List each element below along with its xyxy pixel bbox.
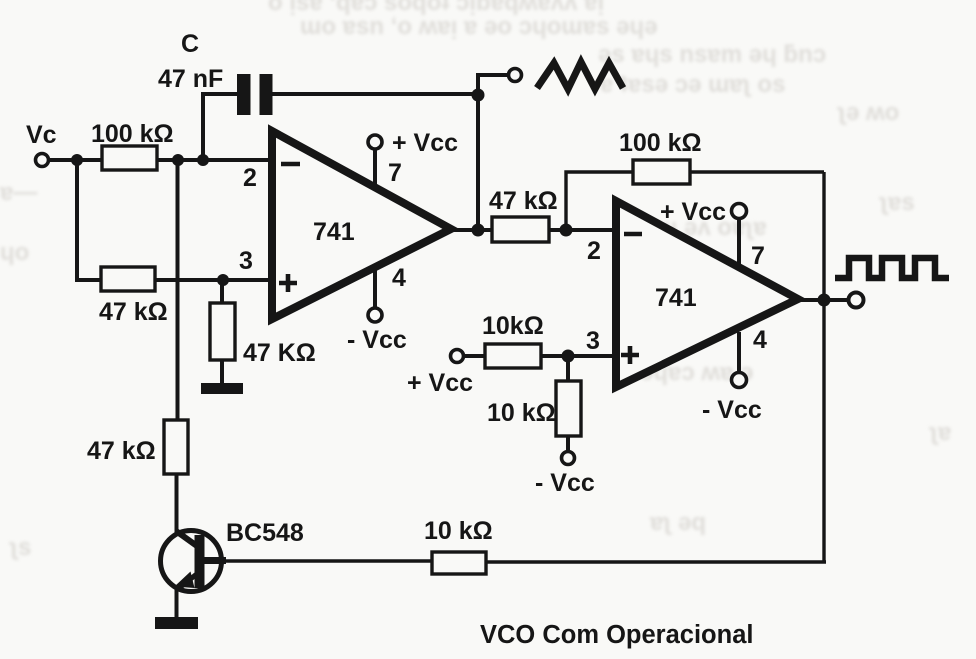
- svg-text:ǝs ɐɥs nsɐm ǝɥ ƃnɔ: ǝs ɐɥs nsɐm ǝɥ ƃnɔ: [598, 41, 826, 68]
- label 47 KOhm R3: [243, 339, 316, 367]
- wire right vertical feedback: [822, 172, 825, 562]
- resistor R3 47K vertical: [210, 303, 235, 360]
- svg-text:47 kΩ: 47 kΩ: [99, 298, 168, 326]
- svg-text:+ Vcc: + Vcc: [660, 198, 726, 226]
- label BC548: [226, 519, 304, 547]
- svg-text:ɐ ʇɐsǝ ɔǝ ɯɐʅ os: ɐ ʇɐsǝ ɔǝ ɯɐʅ os: [599, 71, 785, 98]
- wire R2 to op-amp U1 non-inverting input: [155, 278, 272, 282]
- wire capacitor branch up: [201, 92, 205, 160]
- resistor R5 47k horizontal middle: [492, 217, 549, 242]
- resistor R8 10k vertical: [556, 381, 581, 436]
- label 47 kOhm R4: [87, 437, 156, 465]
- triangle output terminal: [509, 69, 522, 82]
- wire R8 to -Vcc terminal: [566, 436, 570, 451]
- svg-text:- Vcc: - Vcc: [702, 396, 762, 424]
- wire R4 to transistor collector: [175, 474, 179, 533]
- wire R3 to ground: [220, 360, 224, 385]
- wire U1 output: [452, 228, 492, 232]
- resistor R4 47k vertical long: [164, 420, 188, 474]
- wire feedback vertical: [476, 95, 480, 230]
- wire R9 to right vertical: [486, 560, 826, 563]
- label 100 kOhm R6: [619, 129, 702, 157]
- transistor Q1 BC548: [161, 531, 227, 592]
- label 47 nF: [158, 65, 223, 93]
- wire capacitor right plate to feedback node: [272, 92, 478, 96]
- +Vcc terminal U2: [732, 204, 747, 219]
- label +Vcc U2: [660, 198, 726, 226]
- node U2 output: [818, 294, 831, 307]
- wire feedback up from pin2 node: [566, 172, 633, 230]
- svg-text:- Vcc: - Vcc: [347, 326, 407, 354]
- wire down-left branch: [77, 160, 101, 280]
- svg-text:ɥo: ɥo: [0, 239, 29, 266]
- svg-text:ɐʅ ǝq: ɐʅ ǝq: [649, 509, 706, 536]
- svg-text:C: C: [181, 30, 199, 58]
- svg-text:BC548: BC548: [226, 519, 304, 547]
- -Vcc terminal R8: [562, 452, 575, 465]
- minus sign U1: [281, 162, 300, 167]
- svg-text:ʅs: ʅs: [9, 534, 31, 561]
- svg-text:741: 741: [655, 284, 697, 312]
- ground G2: [155, 617, 198, 629]
- op-amp U1 741: [272, 131, 451, 319]
- pin number 4 U2: [753, 326, 767, 354]
- svg-text:47 nF: 47 nF: [158, 65, 223, 93]
- svg-text:ɐ—: ɐ—: [0, 179, 37, 206]
- svg-text:10kΩ: 10kΩ: [482, 312, 544, 340]
- -Vcc terminal U1: [368, 308, 382, 322]
- op-amp U2 741: [616, 201, 798, 387]
- svg-text:741: 741: [313, 218, 355, 246]
- svg-text:100 kΩ: 100 kΩ: [619, 129, 702, 157]
- wire node to R8: [566, 356, 570, 383]
- svg-text:47 kΩ: 47 kΩ: [489, 187, 558, 215]
- label 10kOhm R7: [482, 312, 544, 340]
- svg-text:10 kΩ: 10 kΩ: [424, 517, 493, 545]
- plus sign U2: [621, 346, 639, 364]
- svg-text:10 kΩ: 10 kΩ: [487, 399, 556, 427]
- svg-text:100 kΩ: 100 kΩ: [91, 120, 174, 148]
- svg-text:Vc: Vc: [26, 121, 57, 149]
- label 10 kOhm R8: [487, 399, 556, 427]
- svg-text:ɯo ɐsn ʻo ʍɐᴉ ɐ ǝo ɔɥoɯɐs ǝɥǝ: ɯo ɐsn ʻo ʍɐᴉ ɐ ǝo ɔɥoɯɐs ǝɥǝ: [300, 13, 657, 40]
- node U2 pin3: [562, 350, 575, 363]
- pin number 3 U1: [239, 247, 253, 275]
- resistor R1 100k horizontal top-left: [102, 146, 157, 170]
- wire R6 to right vertical: [690, 170, 824, 173]
- svg-text:3: 3: [586, 327, 600, 355]
- node U2 pin2: [560, 224, 573, 237]
- svg-text:4: 4: [392, 264, 406, 292]
- wire R7 to U2 non-inverting input: [541, 354, 616, 358]
- resistor R6 100k feedback: [633, 160, 690, 184]
- svg-text:ʅɐs: ʅɐs: [879, 189, 915, 216]
- node feedback cap junction: [472, 89, 485, 102]
- label 741 U1: [313, 218, 355, 246]
- resistor R7 10k horizontal: [485, 344, 541, 368]
- label +Vcc R7: [407, 369, 473, 397]
- pin number 2 U1: [243, 164, 257, 192]
- svg-text:47 KΩ: 47 KΩ: [243, 339, 316, 367]
- node pin2 junction A: [172, 154, 184, 166]
- +Vcc terminal R7: [451, 350, 464, 363]
- label 47 kOhm R5: [489, 187, 558, 215]
- wire R1 to op-amp U1 inverting input: [157, 158, 272, 162]
- svg-text:+ Vcc: + Vcc: [407, 369, 473, 397]
- label Vc: [26, 121, 57, 149]
- resistor R2 47k horizontal: [101, 267, 155, 291]
- node input junction: [71, 154, 83, 166]
- wire Vc to R1: [49, 158, 104, 162]
- plus sign U1: [279, 274, 297, 292]
- label -Vcc U1: [347, 326, 407, 354]
- label C: [181, 30, 199, 58]
- input terminal Vc: [36, 154, 49, 167]
- node U1 output: [472, 224, 485, 237]
- wire transistor base to R9: [224, 559, 432, 562]
- label 741 U2: [655, 284, 697, 312]
- wire emitter to ground: [175, 589, 179, 619]
- wire long vertical to R4: [176, 160, 180, 420]
- label -Vcc R8: [535, 469, 595, 497]
- svg-text:+ Vcc: + Vcc: [392, 129, 458, 157]
- label +Vcc U1: [392, 129, 458, 157]
- wire U2 output: [798, 298, 849, 302]
- pin number 4 U1: [392, 264, 406, 292]
- svg-text:VCO Com Operacional: VCO Com Operacional: [480, 621, 753, 649]
- ground G1: [201, 383, 243, 394]
- pin 4 wire U2: [737, 332, 741, 373]
- svg-text:ʅɐ: ʅɐ: [929, 419, 951, 446]
- triangle wave symbol: [537, 62, 623, 89]
- label 10 kOhm R9: [424, 517, 493, 545]
- svg-text:2: 2: [243, 164, 257, 192]
- svg-text:7: 7: [388, 159, 402, 187]
- pin number 2 U2: [587, 237, 601, 265]
- svg-text:- Vcc: - Vcc: [535, 469, 595, 497]
- pin 7 wire U1: [373, 149, 377, 190]
- caption VCO Com Operacional: [480, 621, 753, 649]
- svg-text:7: 7: [751, 242, 765, 270]
- svg-text:ʅǝ ʍo: ʅǝ ʍo: [837, 99, 899, 126]
- pin 7 wire U2: [737, 219, 741, 266]
- wire R5 to U2 inverting input: [549, 228, 616, 232]
- svg-text:4: 4: [753, 326, 767, 354]
- resistor R9 10k bottom: [432, 552, 486, 574]
- wire to capacitor left plate: [203, 92, 238, 96]
- square wave symbol: [835, 258, 949, 278]
- +Vcc terminal U1: [368, 135, 382, 149]
- svg-text:47 kΩ: 47 kΩ: [87, 437, 156, 465]
- capacitor C1 plates: [237, 74, 273, 115]
- pin 4 wire U1: [373, 270, 377, 308]
- label 100 kOhm R1: [91, 120, 174, 148]
- wire to triangle output terminal: [478, 75, 509, 97]
- -Vcc terminal U2: [732, 373, 747, 388]
- svg-text:3: 3: [239, 247, 253, 275]
- wire +Vcc terminal to R7: [464, 354, 487, 358]
- node pin2 junction B: [197, 154, 209, 166]
- label -Vcc U2: [702, 396, 762, 424]
- node pin3 junction: [217, 274, 229, 286]
- pin number 7 U2: [751, 242, 765, 270]
- pin number 7 U1: [388, 159, 402, 187]
- square wave output terminal: [849, 293, 864, 308]
- pin number 3 U2: [586, 327, 600, 355]
- minus sign U2: [624, 232, 642, 237]
- svg-text:2: 2: [587, 237, 601, 265]
- wire node to R3: [220, 280, 224, 305]
- label 47 kOhm R2: [99, 298, 168, 326]
